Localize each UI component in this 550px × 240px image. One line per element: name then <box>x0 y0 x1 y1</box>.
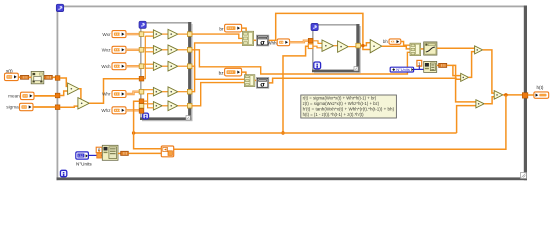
svg-text:Whr: Whr <box>102 92 111 97</box>
wire E out down to add C <box>483 50 495 93</box>
svg-text:I32: I32 <box>78 154 83 158</box>
loop2 mid wire <box>334 45 338 47</box>
svg-text:mean: mean <box>8 93 20 98</box>
control mean <box>21 92 35 99</box>
multiply node row3 <box>153 62 162 70</box>
loop1 row2 mid wire <box>162 49 168 51</box>
junction at loop2 output <box>361 44 364 47</box>
loop1 row4 right tunnel <box>187 89 192 94</box>
add-elements node row1 <box>168 29 178 39</box>
wire init1 to DBL <box>118 152 121 154</box>
loop1 row4 left tunnel <box>139 89 144 94</box>
wire Whz to loop 1 <box>126 109 139 111</box>
svg-text:Whh: Whh <box>267 40 277 45</box>
loop1 x vector tunnel <box>139 76 144 81</box>
type glyph DBL 1 <box>20 75 28 79</box>
multiply node row5 <box>153 102 162 110</box>
wire Wxz to loop 1 <box>126 49 139 51</box>
wire Wxh to loop 1 <box>126 65 139 67</box>
constant 0 stack <box>96 147 102 158</box>
loop1 row1 mid wire <box>162 33 168 35</box>
multiply node r times Whh-h <box>370 40 382 53</box>
multiply node E z times hcand <box>475 46 483 54</box>
for loop 2 resize handle <box>354 67 358 71</box>
for loop 2 frame <box>312 24 361 73</box>
svg-text:r(t) = sigma(Wxr*x(t) + Whr*h(: r(t) = sigma(Wxr*x(t) + Whr*h(t-1) + br) <box>303 96 377 101</box>
constant 1 <box>417 60 422 66</box>
control bh <box>389 39 401 44</box>
svg-text:br: br <box>219 26 224 31</box>
svg-text:N°Units: N°Units <box>396 67 410 72</box>
loop1 row1 right tunnel <box>187 32 192 37</box>
control br <box>225 24 242 32</box>
wire ones to one-minus node <box>447 65 461 75</box>
wire build-array r to sigma <box>254 39 257 41</box>
wire init to feedback node <box>128 152 161 154</box>
control Wxh <box>112 63 126 70</box>
svg-text:σ: σ <box>260 39 265 46</box>
wire h(t) feedback return <box>174 95 506 149</box>
for loop 1 i terminal <box>143 113 149 119</box>
multiply node row1 <box>153 30 162 38</box>
wire sigma into divide <box>60 106 78 107</box>
add-elements node row3 <box>168 61 178 71</box>
wire Wxr to loop 1 <box>126 33 139 35</box>
svg-text:bh: bh <box>383 39 388 44</box>
control bz <box>225 68 242 76</box>
junction h(t) <box>504 93 508 97</box>
svg-text:bz: bz <box>219 70 225 75</box>
wire Whh to loop 2 <box>290 41 309 43</box>
tunnel x(t) on outer border <box>55 76 60 81</box>
for loop 2 N icon <box>311 23 318 30</box>
loop1 row3 out stub <box>178 65 188 67</box>
tunnel h(t) on outer border <box>522 93 527 98</box>
control N Units I32 <box>76 152 89 159</box>
loop2 h tunnel <box>308 44 313 49</box>
svg-text:sigma: sigma <box>6 105 19 110</box>
loop1 row5 out stub <box>178 105 188 107</box>
wire init2 to DBL <box>437 64 439 66</box>
svg-text:z(t) = sigma(Wxz*x(t) + Whz*h(: z(t) = sigma(Wxz*x(t) + Whz*h(t-1) + bz) <box>303 101 380 106</box>
wire tunnel to h(t) indicator <box>528 94 534 96</box>
wire row3 to build-array z <box>192 66 245 79</box>
svg-text:N°Units: N°Units <box>76 161 92 166</box>
type glyph DBL h init <box>121 151 129 155</box>
multiply node row4 <box>153 88 162 96</box>
wire loop2 out to multiply D <box>361 43 371 46</box>
loop1 row4 mid wire <box>162 91 168 93</box>
wire F out up to multiply E <box>469 52 475 78</box>
wire constant 0 <box>99 150 102 153</box>
wire Whr to loop 1 <box>126 92 139 94</box>
for loop 2 i terminal <box>314 62 321 69</box>
wire subtract to divide <box>78 89 81 101</box>
svg-text:h'(t) = tanh(Wxh*x(t) + Whh*(r: h'(t) = tanh(Wxh*x(t) + Whh*(r(t).*h(t-1… <box>303 107 395 112</box>
loop1 row5 right tunnel <box>187 104 192 109</box>
wire x(t) chain <box>18 76 55 78</box>
svg-text:Wxr: Wxr <box>102 32 111 37</box>
wire h(t-1) to multiply B <box>457 106 476 133</box>
svg-text:Wxh: Wxh <box>101 64 111 69</box>
control Whh <box>277 39 289 46</box>
wire h(t-1) up to loop 2 <box>283 46 308 133</box>
loop1 row1 input stub <box>144 31 154 33</box>
wire normalized x to loop 1 <box>89 79 139 104</box>
loop1 x feeder vertical <box>144 36 154 79</box>
loop2 Whh tunnel <box>308 38 313 43</box>
wire mean into subtract <box>60 91 68 96</box>
outer loop iteration icon <box>56 4 63 11</box>
subVI normalize icon <box>31 71 44 83</box>
wire bh to build-array h <box>401 42 410 46</box>
multiply node loop2 <box>322 40 334 51</box>
control Wxr <box>112 31 126 38</box>
wire h(t) to border tunnel <box>503 94 523 96</box>
junction feedback to h line <box>132 131 135 134</box>
type glyph DBL 2 <box>44 75 52 79</box>
svg-text:Whz: Whz <box>101 108 111 113</box>
wire mean to tunnel <box>34 95 55 97</box>
multiply node row2 <box>153 46 162 54</box>
wire feedback out to loop1 h tunnel <box>134 101 162 149</box>
add-elements node row2 <box>168 45 178 55</box>
build-array node r gate <box>242 31 253 45</box>
wire multiply D to build-array h <box>382 46 410 49</box>
svg-text:1: 1 <box>418 61 421 66</box>
loop2 input stubs <box>313 41 322 48</box>
outer while loop frame <box>57 6 528 181</box>
feedback node <box>161 146 173 157</box>
wire B out to add C <box>484 97 494 104</box>
loop1 h feeder vertical <box>144 94 154 108</box>
wire tanh out to multiply E <box>437 47 475 49</box>
loop1 row3 mid wire <box>162 65 168 67</box>
local variable N Units <box>390 67 413 72</box>
loop1 row2 out stub <box>178 49 188 51</box>
loop1 row2 right tunnel <box>187 48 192 53</box>
loop1 row2 left tunnel <box>139 48 144 53</box>
loop1 row5 input stub <box>144 103 154 105</box>
indicator h(t) <box>534 92 549 98</box>
wire row2 long to build-array h <box>192 50 411 74</box>
loop1 row3 right tunnel <box>187 64 192 69</box>
loop1 row5 left tunnel <box>139 104 144 109</box>
for loop 1 N icon <box>139 21 146 28</box>
loop1 row2 input stub <box>144 47 154 49</box>
control Wxz <box>112 46 126 53</box>
tunnel sigma <box>55 105 60 110</box>
wire sigma to tunnel <box>33 106 55 108</box>
svg-text:h(t): h(t) <box>537 85 544 90</box>
add node C h(t) <box>494 91 503 100</box>
divide node by sigma <box>78 98 89 109</box>
add-elements node row4 <box>168 87 178 97</box>
add-elements node loop2 <box>338 41 349 52</box>
control x(t) <box>5 73 19 80</box>
wire row4 to build-array r <box>192 43 243 92</box>
sigmoid subVI z gate <box>256 77 268 88</box>
loop2 right tunnel <box>356 43 361 48</box>
wire ones to multiply B <box>453 65 476 102</box>
type glyph DBL ones <box>439 63 447 67</box>
wire N Units to initialize array 2 <box>414 68 424 70</box>
svg-text:Wxz: Wxz <box>102 48 112 53</box>
subtract node x-mean <box>68 83 79 95</box>
loop1 row4 out stub <box>178 91 188 93</box>
wire build-array z to sigma <box>255 79 257 81</box>
comment box GRU equations <box>301 95 397 118</box>
outer loop resize handle <box>521 173 527 179</box>
svg-text:σ: σ <box>260 82 265 89</box>
tanh subVI <box>424 42 437 55</box>
one-minus node F <box>461 73 469 81</box>
wire constant 1 down <box>418 66 420 69</box>
loop1 row4 input stub <box>144 89 154 91</box>
wire x into subtract <box>60 78 68 86</box>
multiply node B one-minus-z times h <box>476 100 484 108</box>
build-array node h candidate <box>410 43 421 55</box>
junction h line to loop2 <box>281 131 284 134</box>
wire r gate over loop 2 <box>269 13 370 49</box>
wire build-array h to tanh <box>421 48 424 50</box>
wire br to build-array r <box>242 28 247 32</box>
sigmoid subVI r gate <box>256 35 268 46</box>
build-array node z gate <box>244 75 254 87</box>
wire h(t-1) distribution line <box>134 132 457 134</box>
wire z long to one-minus node <box>269 78 461 83</box>
wire row1 to build-array r <box>192 34 243 38</box>
wire row5 to build-array z <box>192 83 245 106</box>
svg-text:h(t) = (1 - z(t)).*h(t-1) + z(: h(t) = (1 - z(t)).*h(t-1) + z(t).*h'(t) <box>303 112 365 117</box>
loop1 row3 input stub <box>144 63 154 65</box>
loop1 whz tunnel <box>139 109 144 114</box>
loop1 row1 out stub <box>178 33 188 35</box>
control Whz <box>112 107 126 114</box>
tunnel mean <box>55 93 60 98</box>
wire I32 to initialize array 1 <box>88 154 102 156</box>
initialize array 1 icon <box>102 145 118 160</box>
loop1 row5 mid wire <box>162 105 168 107</box>
control Whr <box>112 91 126 98</box>
wire bz to build-array z <box>242 72 246 76</box>
loop1 row1 left tunnel <box>139 32 144 37</box>
for loop 1 resize handle <box>186 116 190 120</box>
control sigma <box>20 103 34 110</box>
loop2 out stub <box>348 46 356 48</box>
add-elements node row5 <box>168 101 178 111</box>
outer loop i terminal <box>60 170 66 176</box>
loop1 h vector tunnel <box>139 99 144 104</box>
initialize array 2 icon <box>424 61 437 72</box>
loop1 row3 left tunnel <box>139 64 144 69</box>
for loop 1 frame <box>140 22 193 121</box>
